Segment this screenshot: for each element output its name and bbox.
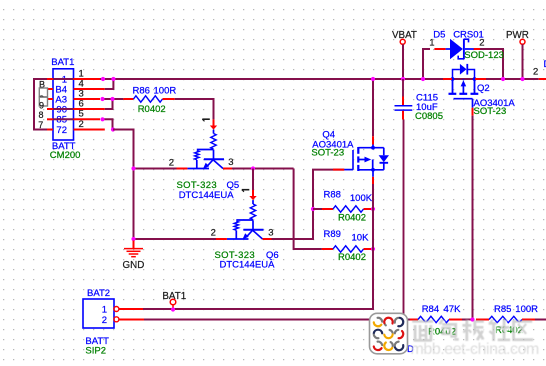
wire pin6 riser — [105, 99, 113, 109]
transistor Q6 (DTC144EUA) — [216, 190, 272, 240]
watermark logo — [370, 313, 408, 354]
wire rail to C115 — [402, 79, 404, 97]
svg-text:DTC144EUA: DTC144EUA — [179, 190, 235, 201]
svg-text:72: 72 — [56, 125, 67, 136]
resistor R86 right stub — [163, 98, 175, 100]
wire Q5 pin3 net — [232, 168, 294, 170]
wire pin2 down to Q5/Q6/GND — [113, 130, 219, 240]
BAT2 pin2 stub — [119, 319, 144, 321]
BAT2 pin2 circle — [114, 317, 119, 322]
wire rail up to D5 anode — [423, 49, 430, 79]
BAT2 pin1 circle — [114, 307, 119, 312]
svg-text:R0402: R0402 — [138, 104, 166, 115]
junction dot Q5-Q6 — [251, 166, 255, 170]
BAT1 right pin 1 stub — [74, 78, 101, 80]
wire Q2 gate down to R84/R85 node — [472, 116, 474, 320]
wire through BAT1 row5 — [53, 118, 74, 120]
svg-text:R85: R85 — [494, 304, 511, 315]
resistor R86 left stub — [123, 98, 133, 100]
svg-text:R0402: R0402 — [338, 252, 366, 263]
svg-text:PWR: PWR — [506, 30, 529, 41]
svg-text:SOT-23: SOT-23 — [474, 106, 507, 117]
BAT1 right pin 3 stub — [74, 98, 101, 100]
svg-text:C0805: C0805 — [415, 111, 443, 122]
junction dot row3 b — [110, 97, 114, 101]
junction dot row6 — [111, 127, 115, 131]
svg-text:10K: 10K — [352, 233, 370, 244]
diode D5 anode stub — [434, 48, 445, 50]
transistor Q2 (AO3401A P-MOSFET) — [449, 64, 479, 108]
junction dot BAT1 — [171, 307, 175, 311]
capacitor C115 plates — [395, 105, 413, 107]
wire VBAT to rail — [402, 44, 404, 79]
ground symbol GND — [133, 241, 135, 249]
wire rail to Q4 drain — [372, 79, 374, 136]
svg-text:R84: R84 — [422, 304, 439, 315]
BAT1 left pin stub row 2 — [47, 88, 53, 90]
wire PWR to rail — [522, 44, 524, 79]
resistor R85 right stub — [522, 319, 535, 321]
svg-text:3: 3 — [268, 227, 273, 238]
BAT1 left no-connect box 1 — [39, 88, 47, 97]
resistor R89 left stub — [322, 248, 333, 250]
Q4 drain red stub — [372, 136, 374, 144]
Q2 left pin red stub — [443, 78, 452, 80]
svg-text:BAT1: BAT1 — [51, 57, 74, 68]
wire R84 to node — [462, 319, 473, 321]
power port BAT1 circle — [170, 299, 176, 305]
svg-text:100K: 100K — [350, 193, 373, 204]
wire row3 to R86 — [101, 98, 123, 100]
diode D5 (CRS01 schottky) — [446, 39, 474, 59]
svg-text:BAT2: BAT2 — [87, 288, 110, 299]
wire D5 cathode down to rail — [480, 49, 503, 79]
wire left rail of BAT1 — [34, 79, 47, 130]
svg-text:mbb.eet-china.com: mbb.eet-china.com — [411, 341, 540, 358]
BAT1 left no-connect box 2 — [39, 97, 47, 106]
wire main VBAT rail — [100, 78, 539, 80]
wire Q4 source to R88 rail — [372, 184, 374, 209]
Q2 right pin red stub — [475, 78, 486, 80]
svg-text:R86: R86 — [133, 86, 150, 97]
svg-text:100R: 100R — [154, 86, 177, 97]
capacitor C115 top stub — [402, 97, 404, 106]
transistor Q4 (AO3401A P-MOSFET) — [344, 145, 389, 177]
svg-text:2: 2 — [533, 67, 538, 78]
svg-text:2: 2 — [211, 227, 216, 238]
diode D5 cathode stub — [474, 48, 480, 50]
connector BAT2 body — [83, 299, 114, 328]
svg-text:1: 1 — [429, 38, 434, 49]
svg-text:DTC144EUA: DTC144EUA — [220, 260, 276, 271]
svg-text:2: 2 — [79, 119, 84, 130]
power port VBAT circle — [400, 39, 405, 44]
svg-text:2: 2 — [102, 315, 107, 326]
capacitor C115 bottom stub — [402, 111, 404, 120]
resistor R84 left stub — [410, 319, 418, 321]
wire R89 node down to BAT1 net — [143, 249, 373, 309]
resistor R88 zigzag — [333, 206, 364, 212]
svg-text:R88: R88 — [324, 189, 341, 200]
BAT1 right pin 2 stub — [74, 129, 105, 131]
BAT1 left pin stub row 3 — [47, 98, 53, 100]
svg-text:47K: 47K — [444, 304, 462, 315]
svg-text:CM200: CM200 — [50, 150, 81, 161]
svg-text:100R: 100R — [515, 304, 538, 315]
junction dot VBAT — [401, 77, 405, 81]
junction dot Q5 pin2 — [131, 166, 135, 170]
resistor R84 zigzag — [418, 316, 449, 322]
wire R85 right — [535, 319, 546, 321]
resistor R85 zigzag — [489, 316, 522, 322]
wire Q5 collector down to R89 — [294, 169, 322, 250]
wire R86 to Q5 pin1 — [175, 99, 214, 119]
junction dot D5 left — [421, 77, 425, 81]
wire R88-R89 rail — [372, 209, 374, 249]
svg-text:Q2: Q2 — [477, 83, 490, 94]
wire R88 left — [313, 208, 322, 210]
junction dot PWR — [520, 77, 524, 81]
power port BAT1 stem — [172, 305, 174, 309]
svg-text:SOT-23: SOT-23 — [311, 148, 344, 159]
junction dot R88 right — [371, 207, 375, 211]
svg-text:2: 2 — [169, 158, 174, 169]
BAT1 right pin 6 stub — [74, 108, 105, 110]
wire BAT2 pin2 to R84 — [144, 319, 410, 321]
resistor R85 left stub — [476, 319, 489, 321]
junction dot row1 b — [111, 77, 115, 81]
svg-text:R0402: R0402 — [338, 213, 366, 224]
Q2 gate red stub — [472, 108, 474, 116]
resistor R89 zigzag — [333, 246, 364, 252]
junction dot D5 right — [501, 77, 505, 81]
junction dot GND rail — [131, 237, 135, 241]
junction dot row5 — [100, 117, 104, 121]
wire pin4 riser — [105, 79, 114, 89]
BAT1 left pin stub row 4 — [47, 108, 53, 110]
BAT1 right pin 5 stub — [74, 118, 101, 120]
wire to Q5 pin2 — [134, 168, 179, 170]
junction dot R89 right — [371, 247, 375, 251]
svg-text:R89: R89 — [324, 229, 341, 240]
watermark text 面包板社区 + url — [0, 0, 1, 1]
Q4 gate red stub — [333, 169, 344, 171]
junction dot row3 a — [100, 97, 104, 101]
main rail right pin stub — [539, 78, 546, 80]
svg-text:GND: GND — [123, 260, 145, 271]
resistor R86 zigzag — [134, 96, 163, 102]
resistor R88 right stub — [364, 208, 372, 210]
transistor Q5 (DTC144EUA) — [177, 119, 233, 169]
BAT1 right pin 4 stub — [74, 88, 105, 90]
resistor R84 right stub — [449, 319, 462, 321]
svg-text:SOD-123: SOD-123 — [464, 50, 504, 61]
BAT1 left pin stub row 5 — [47, 118, 53, 120]
wire pin5 riser — [101, 119, 113, 129]
svg-text:SIP2: SIP2 — [85, 346, 106, 357]
BAT1 left pin stub row 6 — [47, 129, 53, 131]
junction dot R88 left — [311, 207, 315, 211]
svg-text:D5: D5 — [433, 29, 445, 40]
BAT2 pin1 stub — [119, 308, 143, 310]
Q4 source red stub — [372, 177, 374, 184]
resistor R88 left stub — [322, 208, 333, 210]
junction dot row1 a — [101, 77, 105, 81]
connector BAT1 body — [53, 69, 74, 140]
wire through BAT1 row1 — [53, 78, 74, 80]
wire Q6 pin3 up to R88 node — [272, 209, 314, 239]
junction dot Q4 rail — [371, 77, 375, 81]
BAT1 left pin stub row 1 — [47, 78, 53, 80]
wire C115 down to R84 — [403, 120, 405, 320]
wire Q6 pin1 drop — [252, 169, 254, 191]
junction dot R84-R85 — [470, 317, 474, 321]
resistor R89 right stub — [364, 248, 372, 250]
svg-text:8: 8 — [39, 110, 44, 120]
svg-text:2: 2 — [479, 38, 484, 49]
wire through BAT1 row4 — [53, 108, 74, 110]
svg-text:3: 3 — [228, 157, 233, 168]
power port PWR circle — [520, 39, 525, 44]
wire Q4 gate to R88 node — [313, 170, 344, 209]
